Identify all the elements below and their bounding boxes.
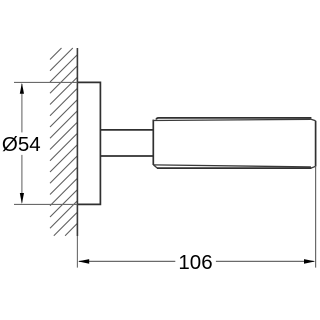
svg-text:106: 106 xyxy=(178,251,212,274)
svg-text:Ø54: Ø54 xyxy=(2,133,41,156)
